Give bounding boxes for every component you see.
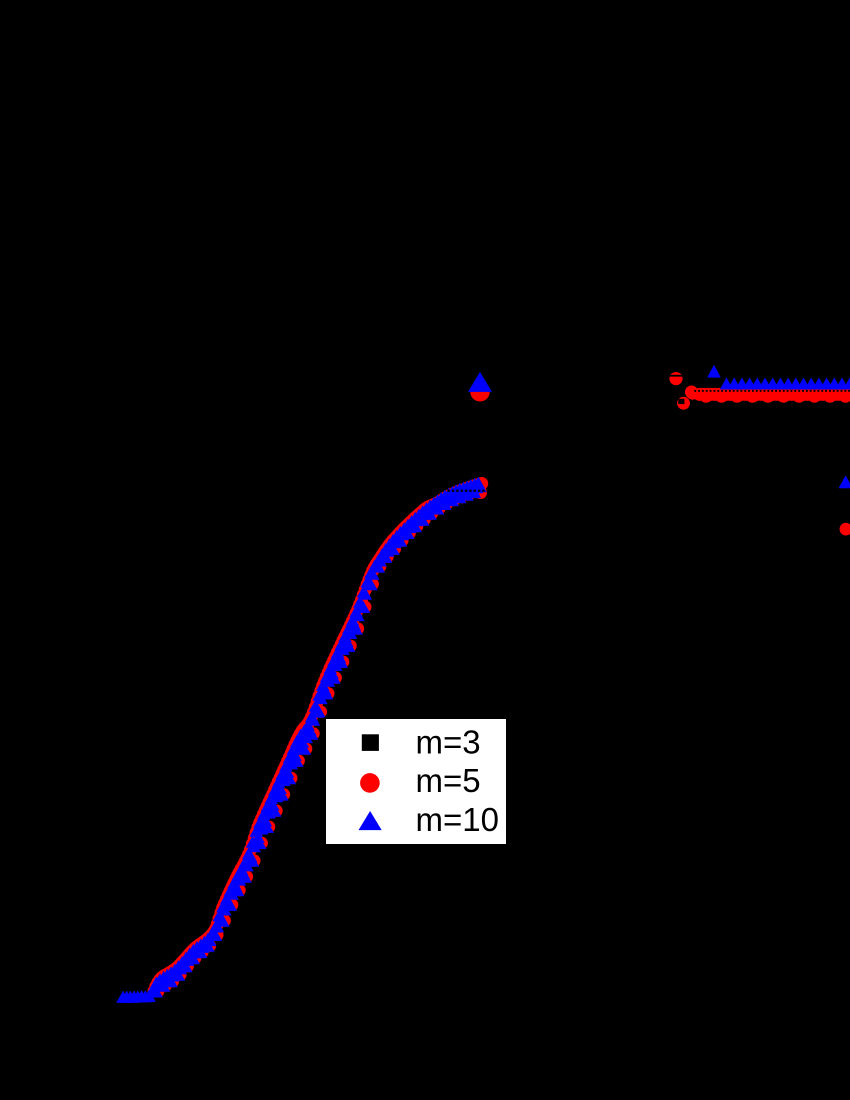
svg-text:m=3: m=3 xyxy=(416,724,481,761)
svg-text:m=10: m=10 xyxy=(416,801,499,838)
svg-text:m=5: m=5 xyxy=(416,762,481,799)
